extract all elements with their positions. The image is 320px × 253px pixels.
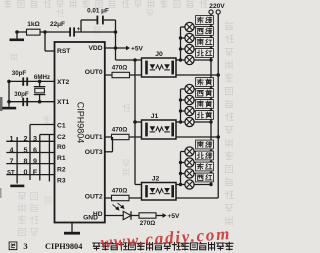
svg-text:220V: 220V bbox=[209, 3, 225, 10]
wire keypad col2 to C1 bbox=[29, 125, 31, 181]
ground G4 (IC GND) bbox=[71, 223, 73, 232]
node J1 return bbox=[216, 135, 220, 139]
wire lamp bus group0 bbox=[180, 27, 182, 60]
node J0 return bbox=[216, 73, 220, 77]
IC U1 CIPH9804 body bbox=[55, 42, 105, 223]
node rail A North-green bbox=[209, 161, 212, 164]
svg-text:8: 8 bbox=[24, 156, 28, 165]
arrow +5V bottom bbox=[163, 213, 167, 218]
lamp South-green bbox=[181, 151, 185, 153]
ground G1 (reset) bbox=[16, 32, 18, 39]
wire lamp bus group1 bbox=[180, 89, 182, 122]
wire J0 to lamp bus bbox=[176, 59, 181, 61]
label box North-yellow bbox=[196, 111, 214, 120]
node J1 anode branch bbox=[133, 120, 137, 124]
node xtal rail bottom bbox=[7, 100, 11, 104]
optocoupler J2 bbox=[142, 183, 177, 201]
svg-text:4: 4 bbox=[10, 145, 14, 154]
svg-text:5: 5 bbox=[24, 145, 28, 154]
lamp East-green bbox=[181, 26, 185, 28]
wire OUT3 tie to OUT1 bbox=[105, 151, 113, 153]
resistor R 470 (OUT2) bbox=[112, 195, 130, 200]
ground G3 (keypad) bbox=[10, 185, 24, 188]
svg-text:GND: GND bbox=[83, 215, 98, 222]
node bus group0 row2 bbox=[179, 47, 182, 50]
node bus group1 row1 bbox=[179, 98, 182, 101]
LED D1 bbox=[123, 211, 131, 219]
node cap junction bbox=[114, 30, 118, 34]
lamp East-yellow bbox=[181, 88, 185, 90]
lamp East-red bbox=[181, 173, 185, 175]
node reset-left bbox=[15, 30, 19, 34]
wire +5V to J0 anode bbox=[116, 59, 142, 61]
wire to J1 anode bbox=[135, 121, 142, 123]
svg-text:7: 7 bbox=[10, 156, 14, 165]
node rail A North-red bbox=[209, 58, 212, 61]
wire OUT2 bbox=[105, 197, 142, 199]
wire 220V rail A bbox=[210, 14, 212, 184]
wire 22uF to node bbox=[75, 31, 116, 33]
wire keypad col3 to C2 bbox=[39, 135, 41, 181]
wire +5V rail down to J1 J2 bbox=[134, 60, 136, 185]
wire J1 triac return bbox=[176, 136, 218, 138]
svg-text:ST: ST bbox=[7, 170, 15, 176]
svg-text:1kΩ: 1kΩ bbox=[27, 21, 40, 28]
wire to J2 anode bbox=[135, 184, 142, 186]
node bus group1 row2 bbox=[179, 109, 182, 112]
lamp South-yellow bbox=[181, 110, 185, 112]
wire J2 to lamp bus bbox=[176, 184, 181, 186]
svg-text:OUT0: OUT0 bbox=[85, 69, 103, 76]
svg-text:2: 2 bbox=[24, 134, 28, 143]
optocoupler J0 bbox=[142, 58, 177, 77]
wire XT1 bbox=[9, 101, 55, 103]
svg-text:9: 9 bbox=[33, 156, 37, 165]
optocoupler J1 bbox=[142, 120, 177, 139]
wire J0 triac return bbox=[176, 74, 218, 76]
svg-text:470Ω: 470Ω bbox=[112, 188, 128, 195]
wire keypad col1 + ground stem bbox=[16, 137, 18, 184]
svg-text:VDD: VDD bbox=[88, 45, 102, 52]
label box East-green bbox=[196, 16, 214, 25]
capacitor C 22uF plates bbox=[69, 27, 71, 36]
wire left rail xtal bbox=[8, 81, 10, 101]
wire RST top rail bbox=[17, 31, 70, 33]
svg-text:+5V: +5V bbox=[168, 213, 181, 220]
capacitor C 0.01uF branch wire bbox=[80, 20, 82, 32]
label box North-green bbox=[196, 151, 214, 160]
svg-text:0.01 μF: 0.01 μF bbox=[87, 8, 109, 15]
ground G2 (xtal) bbox=[8, 102, 10, 107]
wire lamp bus group2 bbox=[180, 152, 182, 185]
svg-text:J0: J0 bbox=[155, 51, 163, 58]
svg-text:OUT3: OUT3 bbox=[85, 149, 103, 156]
capacitor C 30pF lower bbox=[22, 98, 24, 106]
wire OUT0 bbox=[105, 74, 142, 76]
label box West-green bbox=[196, 27, 214, 36]
svg-text:6MHz: 6MHz bbox=[34, 74, 50, 81]
node J0 anode branch bbox=[133, 58, 137, 62]
svg-text:CIPH9804: CIPH9804 bbox=[45, 242, 82, 251]
wire VDD to +5V bbox=[105, 47, 126, 49]
lamp North-red bbox=[181, 59, 185, 61]
svg-text:XT1: XT1 bbox=[57, 99, 70, 106]
node xtal top bbox=[38, 80, 42, 84]
node RST junction bbox=[43, 30, 47, 34]
svg-text:J2: J2 bbox=[152, 176, 160, 183]
node rail A West-yellow bbox=[209, 98, 212, 101]
wire HD bbox=[105, 215, 139, 217]
LED D1 arrows bbox=[113, 203, 124, 210]
svg-text:+5V: +5V bbox=[131, 46, 144, 53]
svg-text:3: 3 bbox=[23, 241, 27, 251]
label box West-red bbox=[196, 173, 214, 182]
node bus group2 row1 bbox=[179, 161, 182, 164]
svg-text:R2: R2 bbox=[57, 166, 66, 173]
svg-text:J1: J1 bbox=[151, 113, 159, 120]
wire RST to IC bbox=[44, 32, 46, 51]
svg-text:OUT2: OUT2 bbox=[85, 193, 103, 200]
svg-text:470Ω: 470Ω bbox=[112, 127, 128, 134]
lamp North-yellow bbox=[181, 121, 185, 123]
crystal Y1 6MHz bbox=[39, 81, 41, 86]
node bus group2 row2 bbox=[179, 172, 182, 175]
svg-text:0: 0 bbox=[24, 167, 28, 176]
wire keypad row 2 to R2 bbox=[6, 163, 54, 165]
svg-text:470Ω: 470Ω bbox=[112, 64, 128, 71]
label box North-red bbox=[196, 49, 214, 58]
label box South-red bbox=[196, 38, 214, 47]
wire OUT1 bbox=[105, 136, 142, 138]
svg-text:R3: R3 bbox=[57, 177, 66, 184]
node xtal bottom bbox=[38, 100, 42, 104]
wire keypad row 3 to R3 bbox=[6, 174, 54, 176]
lamp South-red bbox=[181, 48, 185, 50]
node rail A East-yellow bbox=[209, 87, 212, 90]
wire keypad col4 bbox=[48, 135, 50, 182]
node bus group0 row3 bbox=[179, 58, 182, 61]
node bus group0 row1 bbox=[179, 36, 182, 39]
svg-text:30pF: 30pF bbox=[14, 91, 29, 98]
node rail A North-yellow bbox=[209, 120, 212, 123]
svg-text:1: 1 bbox=[10, 134, 14, 143]
wire keypad row 0 to R0 bbox=[6, 140, 54, 142]
svg-text:C1: C1 bbox=[57, 122, 66, 129]
node rail A South-yellow bbox=[209, 109, 212, 112]
resistor R 470 (OUT1) bbox=[112, 134, 130, 139]
node rail A East-green bbox=[209, 25, 212, 28]
arrow +5V bbox=[126, 46, 130, 51]
svg-text:F: F bbox=[33, 167, 38, 176]
capacitor C 0.01uF plates bbox=[97, 16, 99, 25]
node bus group2 row3 bbox=[179, 183, 182, 186]
resistor R 270 bbox=[139, 213, 156, 218]
node rail A West-red bbox=[209, 183, 212, 186]
lamp West-green bbox=[181, 37, 185, 39]
terminal 220V right bbox=[216, 10, 220, 14]
wire +5V vertical drop bbox=[115, 32, 117, 60]
node xtal rail top bbox=[7, 80, 11, 84]
svg-text:C2: C2 bbox=[57, 134, 66, 141]
resistor R 470 (OUT0) bbox=[112, 72, 130, 77]
wire J1 to lamp bus bbox=[176, 121, 181, 123]
terminal 220V left bbox=[209, 10, 213, 14]
svg-text:XT2: XT2 bbox=[57, 79, 70, 86]
lamp North-green bbox=[181, 162, 185, 164]
label box South-yellow bbox=[196, 100, 214, 109]
caption text bbox=[9, 242, 17, 250]
wire XT2 bbox=[9, 80, 55, 82]
lamp West-yellow bbox=[181, 99, 185, 101]
label box East-red bbox=[196, 162, 214, 171]
svg-text:3: 3 bbox=[33, 134, 37, 143]
capacitor C 30pF upper bbox=[22, 77, 24, 85]
wire 220V rail B bbox=[217, 14, 219, 198]
lamp West-red bbox=[181, 184, 185, 186]
svg-text:6: 6 bbox=[33, 145, 37, 154]
wire keypad row 1 to R1 bbox=[6, 152, 54, 154]
svg-text:OUT1: OUT1 bbox=[85, 134, 103, 141]
node bus group1 row3 bbox=[179, 120, 182, 123]
resistor R 1kOhm bbox=[27, 29, 41, 35]
svg-text:RST: RST bbox=[57, 48, 71, 55]
svg-text:R0: R0 bbox=[57, 144, 66, 151]
node rail A East-red bbox=[209, 172, 212, 175]
label box West-yellow bbox=[196, 89, 214, 98]
svg-text:30pF: 30pF bbox=[12, 70, 27, 77]
svg-text:R1: R1 bbox=[57, 155, 66, 162]
wire 270 to +5V bbox=[156, 215, 163, 217]
node rail A South-green bbox=[209, 150, 212, 153]
label box South-green bbox=[196, 140, 214, 149]
label box East-yellow bbox=[196, 78, 214, 87]
svg-text:22μF: 22μF bbox=[50, 21, 65, 28]
node rail A West-green bbox=[209, 36, 212, 39]
svg-text:270Ω: 270Ω bbox=[140, 220, 156, 227]
node +5V tap bbox=[114, 46, 118, 50]
node rail A South-red bbox=[209, 47, 212, 50]
